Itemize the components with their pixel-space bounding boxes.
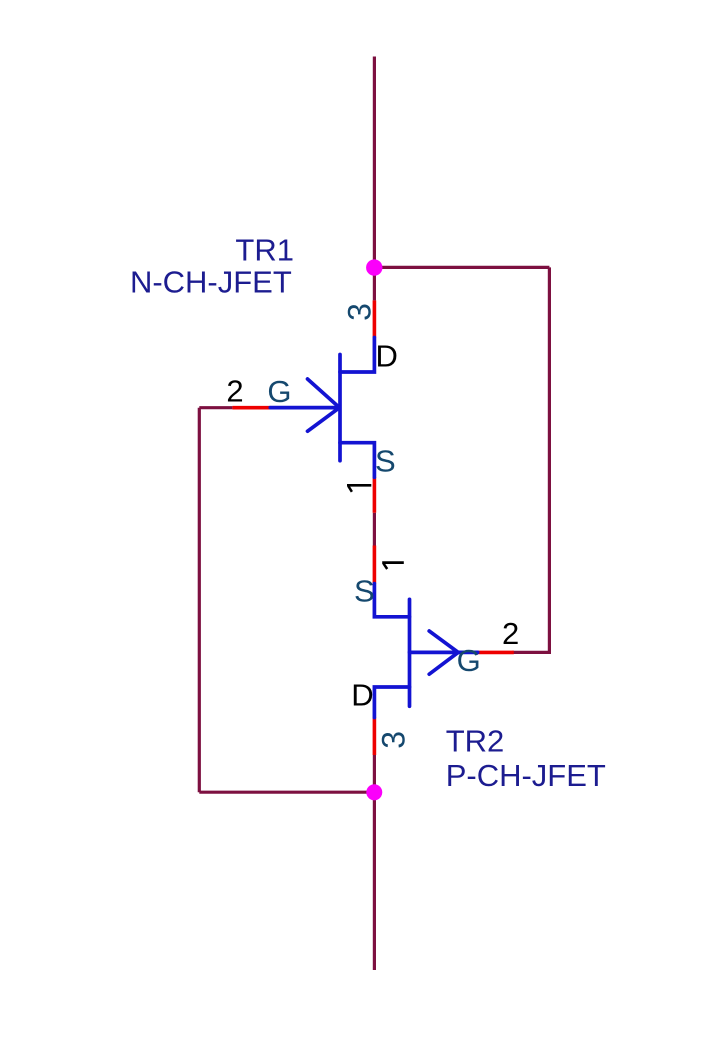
svg-text:G: G <box>457 643 481 678</box>
wire: bottom vertical wire <box>373 792 376 970</box>
TR1 gate arrow lower stroke <box>308 408 340 432</box>
TR2 channel bar <box>408 599 412 706</box>
wire: bottom horizontal to node B <box>199 791 374 794</box>
svg-text:D: D <box>376 339 398 374</box>
transistor TR2 symbol (P-channel JFET) <box>374 584 477 718</box>
TR1 source lead <box>340 443 374 478</box>
transistor TR1 pin 3 (red pin segment, drain) <box>373 300 377 337</box>
TR2 gate arrow upper stroke <box>429 631 458 652</box>
TR1 gate arrow upper stroke <box>308 379 340 408</box>
wire: stub below top node to TR1 pin 3 <box>373 268 376 301</box>
transistor TR1 symbol (N-channel JFET) <box>270 338 374 478</box>
transistor TR2 pin 2 (red pin segment, gate) <box>478 651 514 655</box>
transistor TR2 pin 1 (red pin segment, source) <box>373 546 377 584</box>
TR1 gate lead <box>270 406 339 410</box>
svg-text:P-CH-JFET: P-CH-JFET <box>446 758 606 793</box>
wire: right rail to TR2 gate (maroon segment) <box>512 651 551 654</box>
wire: left vertical rail <box>198 408 201 793</box>
svg-text:TR1: TR1 <box>235 233 294 268</box>
svg-text:G: G <box>267 374 291 409</box>
wire: left rail horizontal at TR1 gate <box>199 406 232 409</box>
transistor TR1 pin 1 (red pin segment, source) <box>373 477 377 513</box>
svg-text:TR2: TR2 <box>446 724 505 759</box>
wire: top horizontal from node A to right rail <box>374 266 549 269</box>
svg-text:3: 3 <box>342 303 378 321</box>
wire: top vertical supply wire <box>373 57 376 268</box>
node A junction dot (top) <box>366 259 382 275</box>
svg-text:D: D <box>351 677 373 712</box>
TR2 source lead <box>374 584 409 617</box>
transistor TR2 pin 3 (red pin segment, drain) <box>373 718 377 756</box>
wire: right vertical rail <box>548 267 551 652</box>
TR2 pin number 1 (rotated) <box>382 563 404 569</box>
TR1 channel bar <box>338 355 342 461</box>
node B junction dot (bottom) <box>366 784 382 800</box>
TR1 pin number 1 (rotated) <box>347 485 371 492</box>
TR1 drain lead <box>340 338 374 373</box>
svg-text:N-CH-JFET: N-CH-JFET <box>130 265 292 300</box>
TR2 drain lead <box>374 687 409 718</box>
svg-text:3: 3 <box>376 731 412 749</box>
transistor TR1 pin 2 (red pin segment, gate) <box>232 406 270 410</box>
svg-text:S: S <box>354 574 375 609</box>
wire: middle maroon segment between pin 1 of TR1 and pin 1 of TR2 <box>373 513 376 546</box>
svg-text:S: S <box>375 444 396 479</box>
TR2 gate lead <box>410 651 478 655</box>
svg-text:2: 2 <box>502 616 519 651</box>
wire: stub above bottom node from TR2 pin 3 <box>373 755 376 792</box>
svg-text:2: 2 <box>226 373 243 408</box>
TR2 gate arrow lower stroke <box>429 652 458 674</box>
